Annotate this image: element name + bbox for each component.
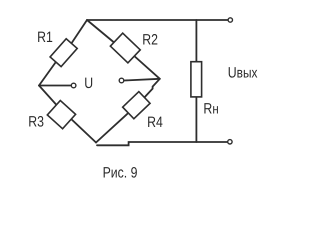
svg-text:Рис. 9: Рис. 9: [103, 165, 138, 182]
resistor R3: [47, 100, 75, 128]
wire R3 to bottom vertex: [69, 117, 97, 143]
svg-text:R4: R4: [147, 114, 163, 131]
wire R2 to right vertex: [132, 54, 160, 79]
terminal circle U right: [119, 78, 124, 83]
terminal circle output top: [228, 18, 232, 22]
resistor R2: [110, 33, 140, 63]
svg-text:Rн: Rн: [203, 100, 218, 117]
wire left terminal (U left): [39, 85, 71, 87]
terminal circle output bottom: [228, 140, 232, 144]
wire top rail: [87, 19, 228, 21]
terminal circle U left: [71, 83, 76, 88]
resistor Rn: [191, 62, 202, 97]
resistor R1: [50, 39, 77, 67]
wire left vertex to R3: [39, 86, 57, 106]
wire bottom vertex to R4: [96, 111, 131, 143]
svg-text:U: U: [84, 75, 93, 92]
wire Rn bottom drop: [195, 97, 197, 143]
svg-text:R1: R1: [37, 29, 53, 46]
wire R1 to left vertex: [39, 59, 58, 86]
wire bottom rail with jog: [97, 142, 228, 145]
wire Rn top drop: [195, 20, 197, 62]
svg-text:R2: R2: [142, 31, 158, 48]
wire right terminal (U right): [124, 79, 160, 81]
svg-text:Uвых: Uвых: [228, 64, 258, 81]
svg-text:R3: R3: [28, 114, 44, 131]
wire R4 to right vertex (with jog): [143, 79, 160, 100]
resistor R4: [123, 92, 150, 119]
wire top vertex to R1: [69, 20, 87, 47]
wire top vertex to R2: [87, 20, 117, 45]
